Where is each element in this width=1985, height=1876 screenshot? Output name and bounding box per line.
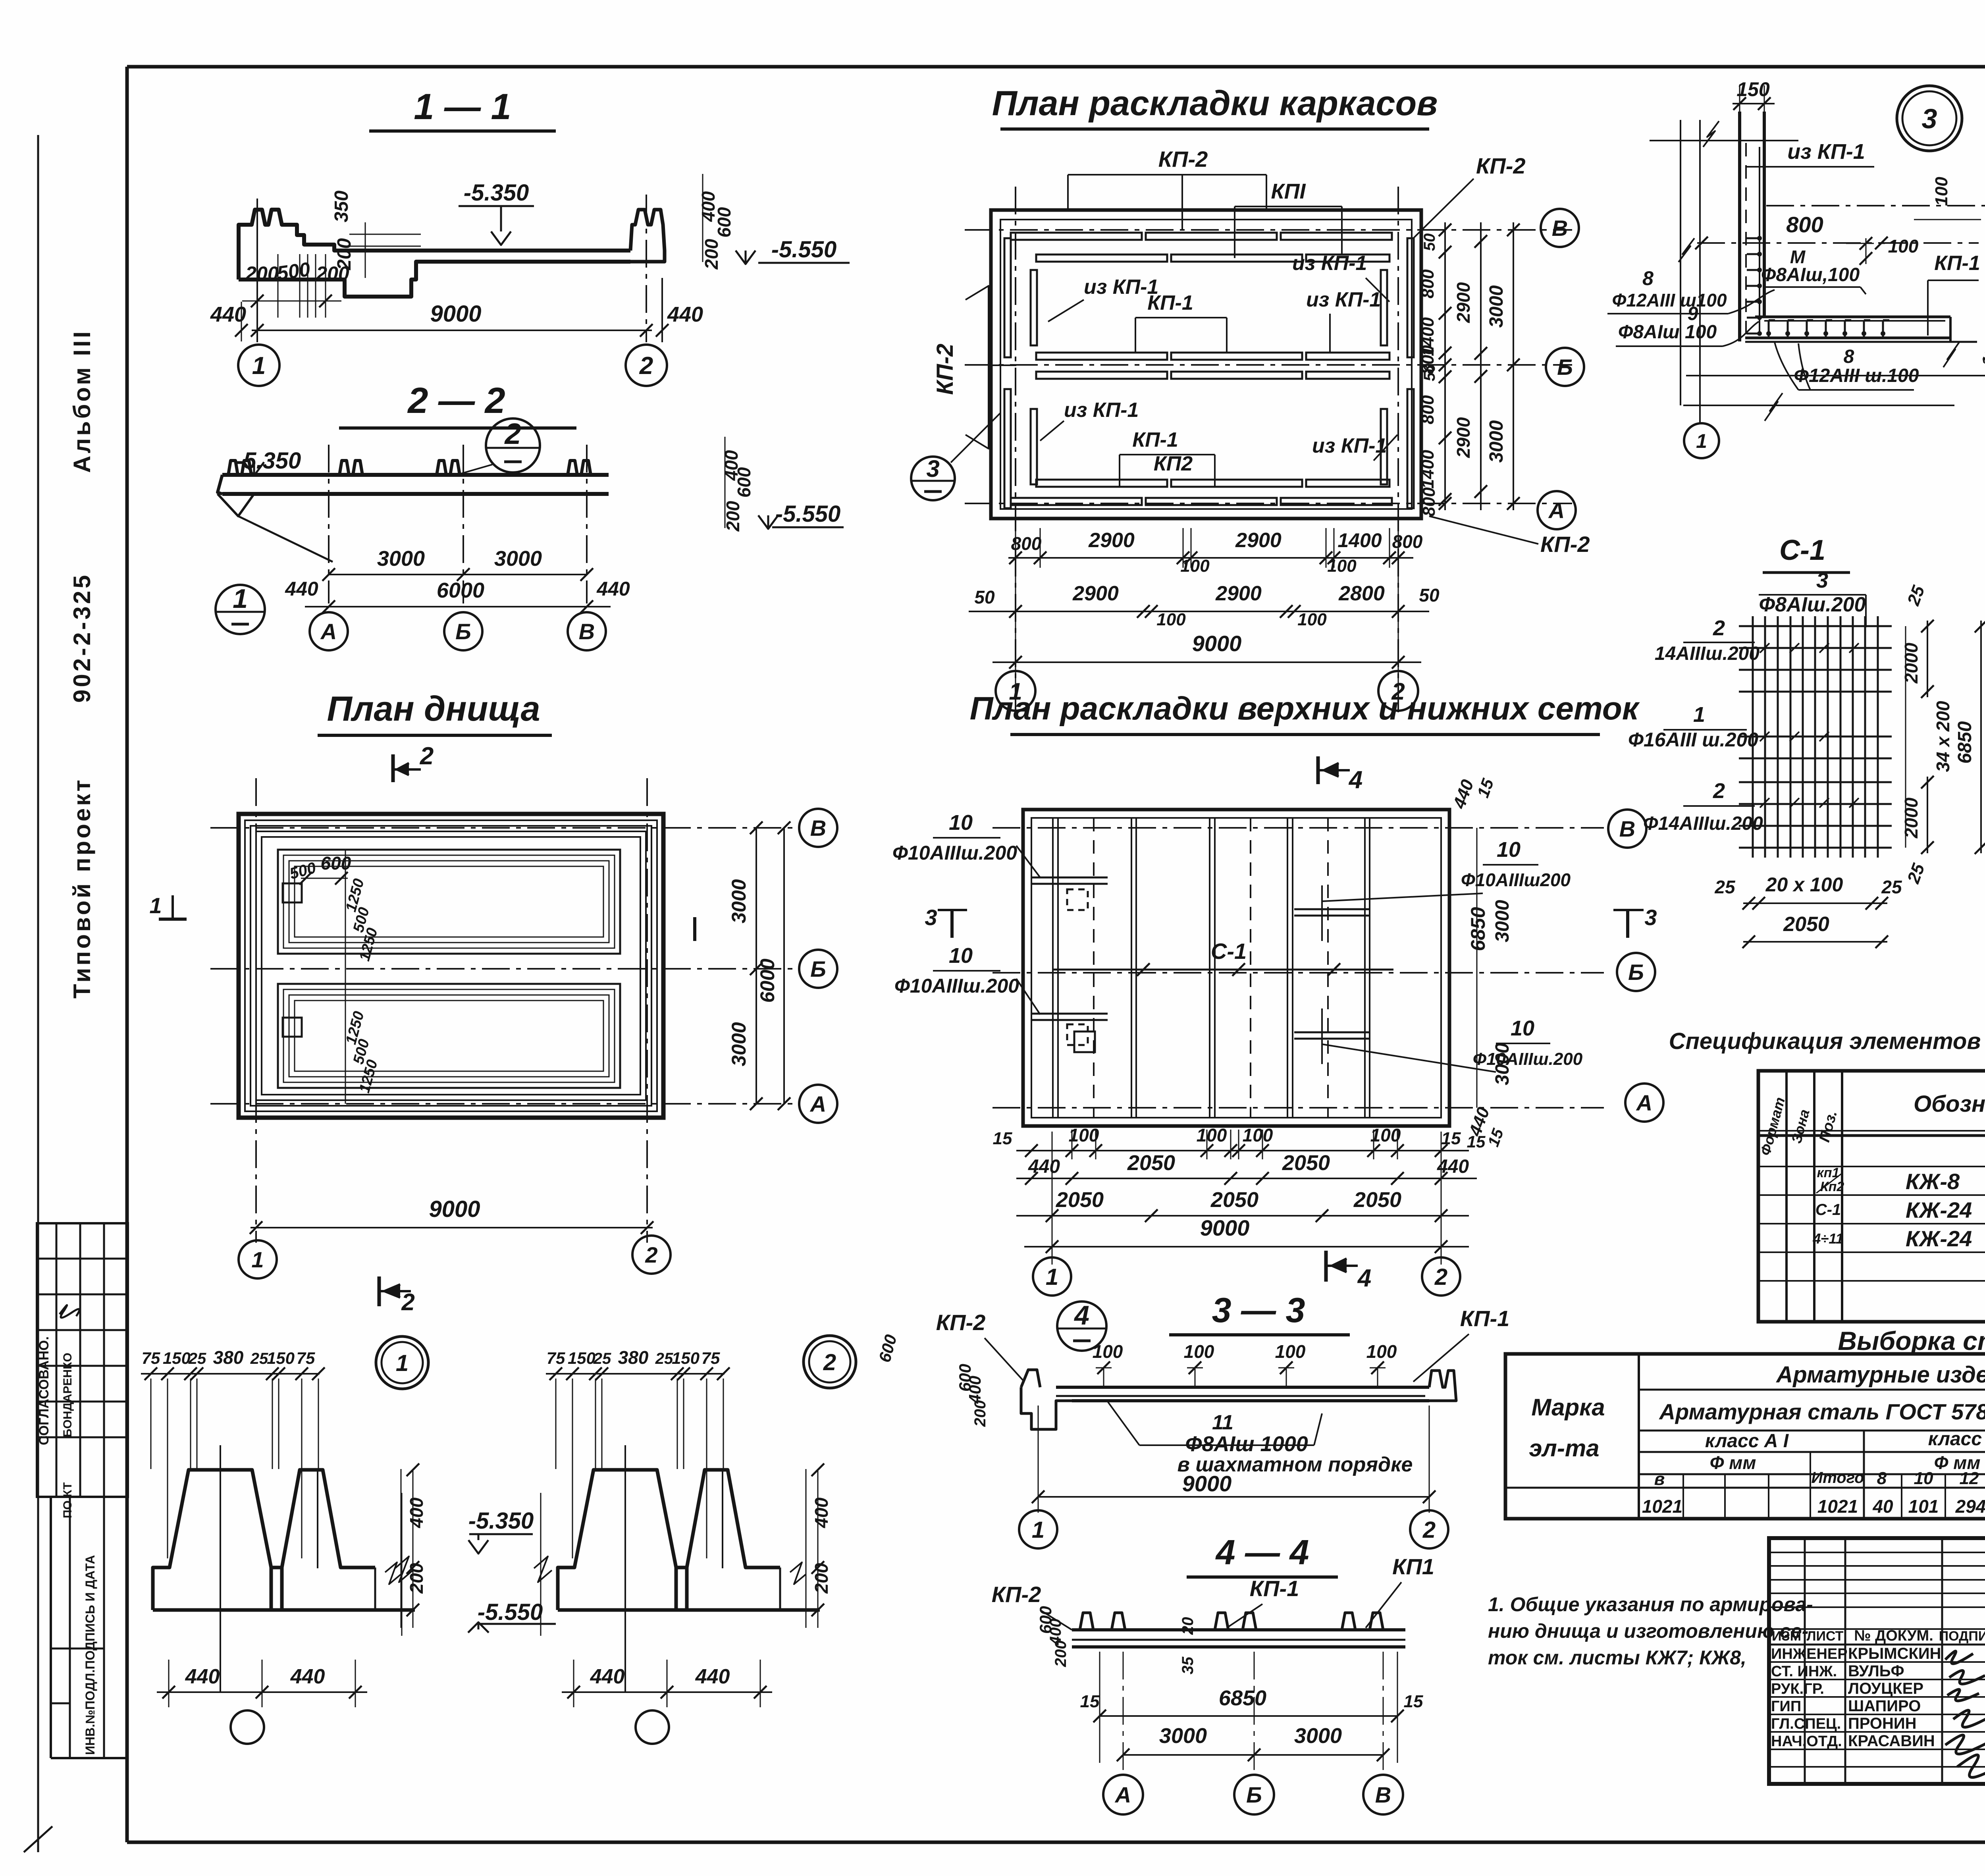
- svg-text:200: 200: [334, 238, 355, 270]
- svg-text:100: 100: [1370, 1125, 1401, 1145]
- svg-text:200: 200: [811, 1563, 832, 1594]
- svg-text:2900: 2900: [1088, 529, 1135, 552]
- svg-text:3: 3: [1644, 905, 1657, 930]
- svg-text:100: 100: [1366, 1341, 1397, 1362]
- svg-text:класс А I: класс А I: [1705, 1431, 1789, 1452]
- svg-text:КП-2: КП-2: [936, 1310, 986, 1335]
- svg-text:ГИП: ГИП: [1771, 1698, 1801, 1715]
- svg-text:КП-1: КП-1: [1132, 428, 1178, 451]
- svg-text:9000: 9000: [1182, 1471, 1232, 1496]
- svg-text:101: 101: [1908, 1496, 1939, 1517]
- svg-text:4 — 4: 4 — 4: [1215, 1533, 1309, 1572]
- svg-text:из КП-1: из КП-1: [1064, 399, 1139, 422]
- svg-text:Ф10АIIIш.200: Ф10АIIIш.200: [894, 975, 1019, 997]
- svg-text:20 x 100: 20 x 100: [1765, 873, 1843, 896]
- svg-text:нию днища и изготовлению се-: нию днища и изготовлению се-: [1488, 1620, 1808, 1642]
- svg-text:КРЫМСКИН: КРЫМСКИН: [1848, 1645, 1941, 1662]
- svg-text:Альбом III: Альбом III: [69, 329, 95, 473]
- svg-text:400: 400: [966, 1376, 984, 1404]
- svg-text:4: 4: [1348, 766, 1363, 794]
- svg-text:3 — 3: 3 — 3: [1212, 1290, 1305, 1330]
- svg-text:75: 75: [547, 1349, 565, 1367]
- svg-text:А: А: [1636, 1090, 1652, 1115]
- svg-text:100: 100: [1180, 556, 1210, 576]
- svg-text:1: 1: [1693, 703, 1705, 727]
- svg-text:А: А: [809, 1091, 826, 1116]
- svg-text:200: 200: [723, 501, 743, 532]
- svg-text:из КП-1: из КП-1: [1787, 140, 1865, 164]
- svg-text:Ф мм: Ф мм: [1710, 1452, 1756, 1473]
- svg-text:10: 10: [1497, 838, 1521, 862]
- svg-text:20: 20: [1179, 1617, 1197, 1635]
- svg-text:15: 15: [1442, 1129, 1461, 1148]
- svg-text:800: 800: [1786, 212, 1823, 237]
- svg-text:Ф8АIш 100: Ф8АIш 100: [1618, 322, 1717, 343]
- svg-text:100: 100: [1069, 1125, 1099, 1145]
- svg-text:Итого: Итого: [1811, 1469, 1864, 1487]
- svg-text:200: 200: [245, 262, 279, 285]
- svg-text:ПОДПИСЬ: ПОДПИСЬ: [1939, 1629, 1985, 1644]
- svg-text:2800: 2800: [1338, 582, 1385, 605]
- svg-text:10: 10: [1511, 1016, 1534, 1040]
- svg-text:440: 440: [596, 578, 630, 600]
- svg-text:800: 800: [1392, 531, 1423, 552]
- svg-text:100: 100: [1184, 1341, 1214, 1362]
- svg-text:Б: Б: [1628, 960, 1644, 985]
- svg-text:1: 1: [1046, 1264, 1058, 1290]
- svg-text:2: 2: [504, 417, 521, 450]
- svg-text:100: 100: [1243, 1125, 1273, 1145]
- svg-text:Ф10АIIIш.200: Ф10АIIIш.200: [892, 842, 1017, 864]
- svg-text:План раскладки каркасов: План раскладки каркасов: [992, 83, 1438, 123]
- svg-text:3: 3: [925, 905, 937, 930]
- svg-text:2: 2: [1434, 1264, 1447, 1290]
- svg-text:4: 4: [1073, 1300, 1089, 1330]
- svg-text:12: 12: [1960, 1469, 1979, 1488]
- svg-text:Ф8АIш 1000: Ф8АIш 1000: [1185, 1432, 1308, 1456]
- svg-text:4: 4: [1357, 1265, 1371, 1292]
- svg-text:ИНВ.№ПОДЛ.ПОДПИСЬ И ДАТА: ИНВ.№ПОДЛ.ПОДПИСЬ И ДАТА: [83, 1555, 97, 1755]
- svg-text:БОНДАРЕНКО: БОНДАРЕНКО: [61, 1353, 74, 1437]
- svg-text:25: 25: [250, 1350, 268, 1367]
- svg-text:класс А III: класс А III: [1928, 1429, 1985, 1450]
- svg-text:440: 440: [590, 1665, 625, 1688]
- svg-text:-5.350: -5.350: [468, 1508, 534, 1534]
- svg-text:из КП-1: из КП-1: [1306, 288, 1381, 311]
- svg-text:Арматурная сталь ГОСТ 5781-75: Арматурная сталь ГОСТ 5781-75: [1659, 1399, 1985, 1424]
- svg-text:600: 600: [734, 467, 754, 497]
- svg-text:В: В: [579, 619, 595, 644]
- svg-text:КП-2: КП-2: [1540, 532, 1590, 557]
- svg-text:Ф12АIII ш100: Ф12АIII ш100: [1612, 290, 1727, 310]
- svg-text:1400: 1400: [1418, 450, 1438, 489]
- svg-text:50: 50: [1421, 233, 1438, 251]
- svg-text:1 — 1: 1 — 1: [414, 87, 511, 127]
- svg-text:40: 40: [1872, 1496, 1893, 1517]
- svg-text:100: 100: [1093, 1341, 1123, 1362]
- svg-text:25: 25: [188, 1350, 206, 1367]
- svg-text:440: 440: [290, 1665, 325, 1688]
- svg-text:2: 2: [645, 1242, 657, 1267]
- svg-text:ПО КТ: ПО КТ: [61, 1482, 74, 1518]
- svg-text:2050: 2050: [1127, 1151, 1175, 1175]
- svg-text:440: 440: [210, 303, 246, 326]
- svg-text:1021: 1021: [1817, 1496, 1858, 1517]
- svg-text:75: 75: [701, 1349, 720, 1367]
- svg-text:1: 1: [252, 352, 266, 380]
- svg-text:100: 100: [1327, 556, 1357, 576]
- svg-text:КП-1: КП-1: [1250, 1576, 1299, 1601]
- svg-text:КЖ-24: КЖ-24: [1906, 1226, 1972, 1251]
- svg-text:ШАПИРО: ШАПИРО: [1848, 1697, 1921, 1715]
- svg-text:Б: Б: [810, 956, 826, 981]
- svg-text:КП-1: КП-1: [1460, 1306, 1510, 1331]
- svg-text:В: В: [1552, 216, 1568, 241]
- svg-text:50: 50: [974, 587, 995, 607]
- svg-text:9000: 9000: [429, 1196, 480, 1222]
- svg-text:Ф8АIш.200: Ф8АIш.200: [1759, 593, 1866, 616]
- svg-text:КП2: КП2: [1154, 452, 1193, 475]
- svg-text:2900: 2900: [1235, 529, 1282, 552]
- svg-text:35: 35: [1179, 1656, 1197, 1674]
- svg-text:ЛОУЦКЕР: ЛОУЦКЕР: [1848, 1680, 1923, 1697]
- svg-text:из КП-1: из КП-1: [1292, 252, 1367, 275]
- svg-text:3000: 3000: [1492, 1043, 1513, 1085]
- svg-text:РУК.ГР.: РУК.ГР.: [1771, 1681, 1824, 1697]
- svg-text:200: 200: [1052, 1641, 1070, 1668]
- svg-text:15: 15: [1467, 1132, 1486, 1151]
- svg-text:8: 8: [1877, 1469, 1887, 1488]
- svg-text:-5.550: -5.550: [771, 237, 836, 262]
- svg-text:380: 380: [213, 1347, 244, 1368]
- svg-text:3000: 3000: [494, 547, 542, 571]
- svg-text:440: 440: [695, 1665, 730, 1688]
- svg-text:Б: Б: [1246, 1782, 1262, 1807]
- svg-text:6850: 6850: [1467, 907, 1489, 951]
- svg-text:3: 3: [1922, 103, 1937, 134]
- svg-text:34 x 200: 34 x 200: [1933, 701, 1953, 772]
- svg-text:14АIIIш.200: 14АIIIш.200: [1655, 643, 1760, 664]
- svg-text:3000: 3000: [1492, 900, 1513, 942]
- svg-text:ГЛ.СПЕЦ.: ГЛ.СПЕЦ.: [1771, 1716, 1841, 1732]
- svg-text:Спецификация элементов к марки: Спецификация элементов к маркировочным с…: [1669, 1028, 1985, 1054]
- svg-text:-5.350: -5.350: [464, 180, 529, 206]
- svg-text:294: 294: [1955, 1496, 1985, 1517]
- svg-text:440: 440: [185, 1665, 220, 1688]
- svg-text:В: В: [1619, 816, 1635, 841]
- svg-text:100: 100: [1156, 610, 1186, 629]
- svg-text:2: 2: [420, 742, 434, 770]
- svg-text:СТ. ИНЖ.: СТ. ИНЖ.: [1771, 1663, 1837, 1680]
- svg-text:3: 3: [926, 455, 939, 482]
- svg-text:С-1: С-1: [1779, 534, 1825, 566]
- svg-text:15: 15: [1404, 1692, 1423, 1711]
- svg-text:200: 200: [701, 239, 722, 270]
- svg-text:Типовой проект: Типовой проект: [69, 777, 95, 999]
- svg-text:100: 100: [1297, 610, 1327, 629]
- svg-text:В: В: [810, 816, 826, 841]
- svg-text:2050: 2050: [1056, 1188, 1104, 1212]
- svg-text:150: 150: [672, 1349, 700, 1367]
- svg-text:Выборка стали на один эле: Выборка стали на один элемент, кг.: [1838, 1326, 1985, 1355]
- svg-text:2050: 2050: [1353, 1188, 1401, 1212]
- svg-text:50: 50: [1419, 585, 1440, 605]
- svg-text:9000: 9000: [1200, 1215, 1250, 1240]
- svg-text:2900: 2900: [1072, 582, 1119, 605]
- svg-text:6000: 6000: [437, 578, 484, 602]
- svg-text:3000: 3000: [1486, 420, 1507, 463]
- svg-text:100: 100: [1275, 1341, 1306, 1362]
- svg-text:440: 440: [285, 578, 318, 600]
- svg-text:800: 800: [1011, 533, 1042, 554]
- svg-text:15: 15: [1080, 1692, 1100, 1711]
- svg-text:2: 2: [823, 1350, 836, 1375]
- svg-text:6000: 6000: [756, 958, 779, 1003]
- svg-text:2050: 2050: [1783, 913, 1829, 936]
- svg-text:11: 11: [1212, 1411, 1233, 1434]
- svg-text:А: А: [320, 619, 337, 644]
- svg-text:9000: 9000: [430, 301, 481, 327]
- svg-text:10: 10: [949, 944, 973, 968]
- svg-text:400: 400: [406, 1497, 427, 1528]
- svg-text:С-1: С-1: [1211, 939, 1247, 964]
- svg-text:КП-1: КП-1: [1934, 252, 1980, 275]
- svg-text:КЖ-8: КЖ-8: [1906, 1169, 1960, 1194]
- svg-text:КПI: КПI: [1271, 179, 1306, 203]
- svg-text:25: 25: [655, 1350, 673, 1367]
- svg-text:3: 3: [1816, 569, 1828, 592]
- svg-text:800: 800: [1419, 487, 1439, 517]
- svg-text:1: 1: [1696, 430, 1707, 452]
- svg-text:В: В: [1375, 1782, 1391, 1807]
- svg-text:КП-2: КП-2: [1476, 153, 1526, 178]
- svg-text:200: 200: [971, 1400, 989, 1427]
- svg-text:3000: 3000: [377, 547, 425, 571]
- svg-text:КП-2: КП-2: [932, 344, 958, 395]
- svg-text:150: 150: [267, 1349, 295, 1367]
- svg-text:Ф16АIII ш.200: Ф16АIII ш.200: [1628, 729, 1758, 751]
- svg-text:2050: 2050: [1210, 1188, 1258, 1212]
- svg-text:6850: 6850: [1954, 721, 1975, 764]
- svg-text:2: 2: [1422, 1517, 1436, 1543]
- svg-text:СОГЛАСОВАНО.: СОГЛАСОВАНО.: [37, 1336, 52, 1445]
- svg-text:С-1: С-1: [1815, 1201, 1841, 1219]
- svg-text:КЖ-24: КЖ-24: [1906, 1197, 1972, 1222]
- svg-text:А: А: [1548, 498, 1565, 523]
- svg-text:Марка: Марка: [1531, 1394, 1605, 1421]
- svg-text:600: 600: [321, 853, 351, 873]
- svg-text:1: 1: [233, 584, 248, 614]
- svg-text:380: 380: [618, 1347, 649, 1368]
- svg-text:2: 2: [1713, 779, 1725, 803]
- svg-text:350: 350: [331, 191, 352, 222]
- svg-text:2900: 2900: [1453, 417, 1474, 458]
- svg-text:902-2-325: 902-2-325: [69, 573, 95, 703]
- svg-text:1: 1: [149, 893, 162, 918]
- svg-text:КП-1: КП-1: [1147, 291, 1193, 314]
- svg-text:План раскладки верхних и нижни: План раскладки верхних и нижних сеток: [970, 690, 1640, 727]
- svg-text:2050: 2050: [1282, 1151, 1330, 1175]
- svg-text:2: 2: [401, 1289, 414, 1315]
- svg-text:Б: Б: [1557, 355, 1573, 380]
- svg-text:440: 440: [667, 303, 703, 326]
- svg-text:100: 100: [1888, 236, 1919, 256]
- svg-text:600: 600: [714, 207, 734, 237]
- svg-text:3000: 3000: [1294, 1724, 1342, 1748]
- svg-text:3000: 3000: [728, 879, 750, 923]
- svg-text:1021: 1021: [1642, 1496, 1682, 1517]
- svg-text:440: 440: [1437, 1156, 1469, 1177]
- svg-text:8: 8: [1642, 267, 1654, 289]
- svg-text:Ф10АIIIш.200: Ф10АIIIш.200: [1473, 1049, 1583, 1069]
- svg-text:эл-та: эл-та: [1529, 1435, 1599, 1461]
- svg-text:1: 1: [396, 1350, 409, 1376]
- svg-text:800: 800: [1418, 395, 1438, 424]
- svg-text:НАЧ.ОТД.: НАЧ.ОТД.: [1771, 1733, 1842, 1750]
- svg-text:440: 440: [1028, 1156, 1060, 1177]
- svg-text:Арматурные изделия: Арматурные изделия: [1775, 1362, 1985, 1388]
- svg-text:3000: 3000: [1159, 1724, 1207, 1748]
- svg-text:2900: 2900: [1215, 582, 1262, 605]
- svg-text:4÷11: 4÷11: [1812, 1230, 1843, 1247]
- svg-text:ток см. листы КЖ7; КЖ8,: ток см. листы КЖ7; КЖ8,: [1488, 1647, 1746, 1669]
- svg-text:КРАСАВИН: КРАСАВИН: [1848, 1732, 1935, 1750]
- svg-text:2900: 2900: [1453, 282, 1474, 323]
- svg-text:Ф8АIш,100: Ф8АIш,100: [1761, 264, 1860, 285]
- svg-text:25: 25: [1714, 877, 1736, 897]
- svg-text:ИНЖЕНЕР: ИНЖЕНЕР: [1771, 1646, 1848, 1662]
- svg-text:500: 500: [276, 258, 312, 285]
- svg-text:2000: 2000: [1901, 797, 1921, 839]
- svg-text:150: 150: [163, 1349, 191, 1367]
- svg-text:Б: Б: [455, 619, 471, 644]
- svg-text:1400: 1400: [1337, 529, 1382, 551]
- svg-text:150: 150: [568, 1349, 595, 1367]
- svg-text:100: 100: [1197, 1125, 1227, 1145]
- svg-text:2: 2: [1713, 616, 1725, 640]
- svg-text:1: 1: [1032, 1517, 1045, 1543]
- svg-text:25: 25: [593, 1350, 611, 1367]
- svg-text:10: 10: [949, 811, 973, 835]
- svg-text:-5.550: -5.550: [478, 1599, 543, 1625]
- svg-text:2000: 2000: [1901, 642, 1921, 684]
- svg-text:9000: 9000: [1192, 631, 1242, 656]
- svg-text:КП-2: КП-2: [1158, 147, 1208, 172]
- svg-text:КП-2: КП-2: [992, 1582, 1041, 1607]
- svg-text:1: 1: [251, 1247, 264, 1272]
- svg-text:ВУЛЬФ: ВУЛЬФ: [1848, 1662, 1904, 1680]
- svg-text:50: 50: [1421, 364, 1438, 382]
- svg-text:8: 8: [1844, 346, 1854, 367]
- svg-text:25: 25: [1881, 877, 1902, 897]
- svg-text:800: 800: [1418, 269, 1438, 299]
- svg-text:200: 200: [406, 1563, 427, 1594]
- svg-text:План днища: План днища: [327, 689, 540, 728]
- svg-text:15: 15: [993, 1129, 1012, 1148]
- svg-text:Обозначение: Обозначение: [1914, 1091, 1985, 1117]
- svg-text:3000: 3000: [1486, 285, 1507, 328]
- svg-text:75: 75: [297, 1349, 315, 1367]
- svg-text:КП1: КП1: [1392, 1554, 1434, 1579]
- svg-text:2: 2: [639, 352, 653, 380]
- svg-text:ПРОНИН: ПРОНИН: [1848, 1715, 1917, 1732]
- svg-text:75: 75: [142, 1349, 160, 1367]
- svg-text:Ф14АIIIш.200: Ф14АIIIш.200: [1643, 813, 1763, 834]
- svg-text:из КП-1: из КП-1: [1312, 434, 1387, 457]
- svg-text:400: 400: [811, 1497, 832, 1528]
- svg-text:10: 10: [1914, 1469, 1933, 1488]
- svg-text:ЛИСТ: ЛИСТ: [1807, 1629, 1844, 1644]
- svg-text:1. Общие указания по армирова-: 1. Общие указания по армирова-: [1488, 1593, 1813, 1616]
- svg-text:А: А: [1114, 1782, 1131, 1807]
- svg-text:2 — 2: 2 — 2: [407, 380, 505, 421]
- svg-text:100: 100: [1932, 177, 1951, 206]
- svg-text:3000: 3000: [728, 1022, 750, 1066]
- svg-text:6850: 6850: [1219, 1686, 1266, 1710]
- svg-text:в: в: [1654, 1469, 1665, 1489]
- svg-text:-5.550: -5.550: [775, 501, 840, 527]
- svg-text:№ ДОКУМ.: № ДОКУМ.: [1854, 1627, 1933, 1644]
